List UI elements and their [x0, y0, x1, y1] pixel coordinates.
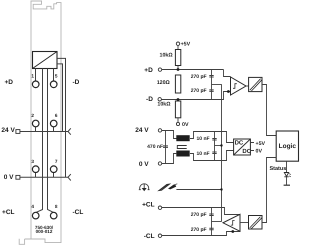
- 24V terminal right: [158, 129, 161, 132]
- earth line: [176, 189, 221, 191]
- svg-text:1: 1: [31, 74, 34, 79]
- wire -CL line: [162, 232, 240, 236]
- svg-text:4: 4: [31, 204, 34, 209]
- svg-text:Status: Status: [269, 166, 286, 172]
- wire U5 to logic: [262, 158, 276, 223]
- -CL terminal: [158, 234, 161, 237]
- node dot +D: [177, 68, 180, 71]
- terminal 5: [50, 81, 57, 88]
- svg-text:24 V: 24 V: [1, 127, 15, 134]
- logic box: [276, 131, 298, 161]
- svg-text:+5V: +5V: [181, 41, 191, 47]
- wire CL cap midpoint to bus: [212, 221, 222, 223]
- capacitor C5 10nF: [212, 152, 216, 154]
- svg-text:3: 3: [31, 159, 34, 164]
- wire box to terminal 8: [48, 69, 54, 213]
- terminal 4: [32, 212, 39, 219]
- LED status: [284, 173, 288, 177]
- module outline (WAGO 750 profile): [19, 1, 61, 244]
- wire U1 output: [246, 85, 249, 87]
- 0V terminal right: [158, 162, 161, 165]
- svg-text:0 V: 0 V: [139, 161, 149, 168]
- svg-text:10kΩ: 10kΩ: [160, 52, 174, 58]
- functional earth symbol: [140, 184, 149, 190]
- svg-text:0V: 0V: [256, 149, 263, 155]
- svg-text:470 nF: 470 nF: [147, 144, 163, 150]
- wire -D line: [161, 92, 230, 100]
- svg-text:10kΩ: 10kΩ: [157, 102, 171, 108]
- wire choke top to DC/DC: [190, 132, 234, 143]
- svg-text:7: 7: [55, 159, 58, 164]
- resistor R3 10k: [175, 101, 180, 118]
- +CL terminal: [158, 206, 161, 209]
- optocoupler U2: [249, 77, 262, 91]
- -D terminal: [158, 98, 161, 101]
- svg-text:-D: -D: [146, 96, 153, 103]
- node dot earth-bus: [220, 188, 222, 190]
- svg-text:-D: -D: [73, 79, 80, 86]
- resistor R2 120: [175, 75, 180, 93]
- svg-text:-CL: -CL: [73, 209, 84, 216]
- wire R3 to 0V: [177, 118, 179, 123]
- capacitor C7 270pF: [209, 228, 213, 230]
- resistor R1 10k: [175, 50, 180, 66]
- svg-text:+CL: +CL: [2, 209, 14, 216]
- choke core: [177, 146, 186, 149]
- capacitor C3 470nF: [165, 131, 167, 164]
- wire +5V to R1: [177, 45, 179, 49]
- 24V jumper contact: [68, 128, 71, 134]
- svg-text:DC: DC: [235, 140, 244, 147]
- wire choke bottom to DC/DC: [190, 151, 234, 161]
- svg-text:6: 6: [55, 113, 58, 118]
- 0V field terminal square: [16, 175, 20, 179]
- shield clamp symbol: [159, 184, 170, 191]
- capacitor C6 270pF: [211, 208, 213, 236]
- wire U4 output: [240, 222, 249, 224]
- svg-text:270 pF: 270 pF: [191, 227, 207, 233]
- stems row2: [36, 127, 54, 132]
- wire +CL line: [162, 208, 240, 215]
- capacitor C1 270pF: [211, 70, 213, 100]
- wire cap midpoint to shield bus: [212, 84, 222, 86]
- terminal 2: [32, 120, 39, 127]
- svg-text:DC: DC: [242, 148, 251, 155]
- 0V row line: [20, 176, 68, 178]
- shield bus: [221, 84, 223, 221]
- svg-text:5: 5: [55, 74, 58, 79]
- +D terminal: [158, 68, 161, 71]
- svg-text:+D: +D: [5, 79, 14, 86]
- svg-text:10 nF: 10 nF: [197, 136, 210, 142]
- wire +D jog to comparator: [224, 70, 231, 77]
- DC/DC converter U3: [234, 139, 251, 155]
- wire box to 0V row: [57, 58, 66, 177]
- choke L1 winding top: [176, 135, 189, 141]
- wire box to 24V row: [57, 64, 63, 132]
- stems row3: [36, 173, 54, 178]
- svg-text:10 nF: 10 nF: [197, 151, 210, 157]
- wire R1 to +D node: [177, 66, 179, 70]
- capacitor C4 10nF: [214, 132, 216, 161]
- op-amp U4 driver: [223, 214, 240, 231]
- svg-text:120Ω: 120Ω: [157, 80, 171, 86]
- ground bar: [284, 184, 290, 186]
- node dot bus midpoint: [220, 144, 222, 146]
- wire status drop: [286, 161, 288, 172]
- svg-text:Logic: Logic: [279, 143, 297, 150]
- terminal 7: [50, 166, 57, 173]
- svg-text:+CL: +CL: [142, 201, 154, 208]
- node dot -D: [177, 98, 180, 101]
- 0V jumper contact: [68, 174, 71, 180]
- wire +D line: [162, 69, 224, 71]
- wire 10nF midpoint to shield bus: [215, 145, 222, 147]
- svg-text:24 V: 24 V: [135, 127, 149, 134]
- wire LED to ground: [286, 177, 288, 185]
- terminal 8: [50, 212, 57, 219]
- wire box to terminal 4: [36, 69, 43, 213]
- svg-text:2: 2: [31, 113, 34, 118]
- wire 0V to choke: [162, 154, 177, 164]
- +5V terminal: [176, 42, 179, 45]
- choke L1 winding bottom: [176, 151, 189, 157]
- svg-text:270 pF: 270 pF: [191, 74, 207, 80]
- terminal 3: [32, 166, 39, 173]
- wire stem terminal 5: [53, 69, 55, 82]
- 0V terminal top section: [176, 122, 179, 125]
- terminal 1: [32, 81, 39, 88]
- op-amp U1 comparator: [231, 77, 247, 95]
- capacitor C2 270pF: [209, 90, 213, 92]
- svg-text:270 pF: 270 pF: [191, 212, 207, 218]
- node dot driver input: [231, 230, 234, 233]
- node dot comparator input: [227, 90, 230, 93]
- terminal 6: [50, 120, 57, 127]
- svg-text:8: 8: [55, 204, 58, 209]
- wire 24V to choke: [162, 131, 177, 139]
- electronics box with diagonal: [33, 52, 58, 69]
- svg-text:000-012: 000-012: [36, 229, 53, 234]
- svg-text:+D: +D: [144, 67, 153, 74]
- DC/DC output stubs: [250, 143, 254, 151]
- svg-text:0 V: 0 V: [4, 174, 14, 181]
- wire stem terminal 1: [35, 69, 37, 82]
- 24V field terminal square: [16, 130, 20, 134]
- svg-text:0V: 0V: [182, 122, 189, 128]
- svg-text:270 pF: 270 pF: [191, 88, 207, 94]
- svg-text:+5V: +5V: [256, 141, 266, 147]
- svg-text:-CL: -CL: [144, 233, 155, 240]
- wire U2 to logic: [262, 85, 276, 136]
- 24V row line: [20, 131, 68, 133]
- optocoupler U5: [249, 216, 263, 230]
